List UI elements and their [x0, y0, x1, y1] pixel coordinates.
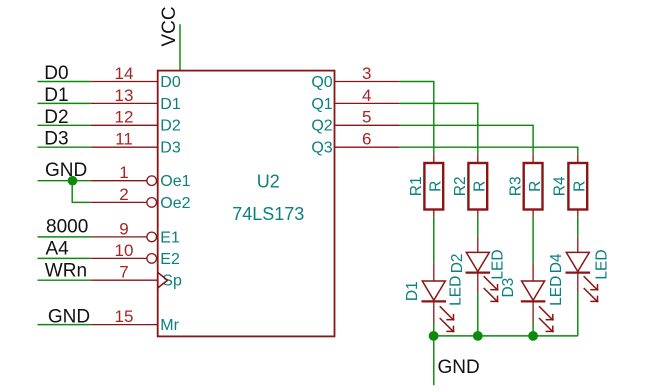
svg-text:D2: D2 — [160, 118, 181, 135]
svg-text:D0: D0 — [160, 74, 181, 91]
svg-text:Q0: Q0 — [311, 74, 332, 91]
svg-text:LED: LED — [490, 249, 507, 279]
svg-text:12: 12 — [115, 108, 134, 127]
svg-text:GND: GND — [48, 306, 90, 327]
svg-text:D4: D4 — [548, 253, 565, 273]
svg-text:R: R — [527, 181, 544, 192]
svg-text:D3: D3 — [160, 140, 181, 157]
svg-text:R2: R2 — [452, 176, 469, 196]
svg-text:1: 1 — [119, 163, 128, 182]
svg-text:D0: D0 — [44, 63, 68, 84]
svg-text:3: 3 — [362, 64, 371, 83]
svg-text:5: 5 — [362, 108, 371, 127]
svg-text:E2: E2 — [160, 251, 180, 268]
svg-text:D2: D2 — [44, 107, 68, 128]
svg-text:Q1: Q1 — [311, 96, 332, 113]
svg-text:Oe2: Oe2 — [160, 195, 190, 212]
svg-text:LED: LED — [448, 276, 465, 306]
svg-text:LED: LED — [593, 249, 610, 279]
svg-text:D1: D1 — [404, 281, 421, 301]
svg-text:14: 14 — [115, 64, 134, 83]
svg-text:Mr: Mr — [160, 317, 179, 334]
svg-text:WRn: WRn — [45, 261, 87, 282]
svg-text:Q3: Q3 — [311, 140, 332, 157]
svg-text:VCC: VCC — [159, 6, 180, 46]
svg-text:R: R — [572, 181, 589, 192]
svg-text:R1: R1 — [408, 176, 425, 196]
svg-text:E1: E1 — [160, 229, 180, 246]
svg-text:R: R — [428, 181, 445, 192]
svg-text:LED: LED — [548, 276, 565, 306]
svg-text:R3: R3 — [507, 176, 524, 196]
svg-text:GND: GND — [438, 357, 480, 378]
svg-text:A4: A4 — [46, 239, 70, 260]
svg-text:D2: D2 — [449, 253, 466, 273]
svg-text:D3: D3 — [500, 278, 517, 298]
svg-text:10: 10 — [115, 241, 134, 260]
svg-text:11: 11 — [115, 130, 133, 149]
svg-text:2: 2 — [119, 185, 128, 204]
svg-text:D1: D1 — [44, 85, 68, 106]
svg-text:8000: 8000 — [46, 217, 88, 238]
svg-text:R4: R4 — [552, 176, 569, 196]
svg-text:R: R — [472, 181, 489, 192]
svg-text:15: 15 — [115, 307, 134, 326]
svg-text:D3: D3 — [44, 129, 68, 150]
svg-text:74LS173: 74LS173 — [232, 204, 304, 224]
svg-text:4: 4 — [362, 86, 371, 105]
svg-text:Q2: Q2 — [311, 118, 332, 135]
svg-text:GND: GND — [45, 160, 87, 181]
svg-text:7: 7 — [119, 263, 128, 282]
svg-text:Oe1: Oe1 — [160, 173, 190, 190]
svg-text:6: 6 — [362, 130, 371, 149]
svg-text:U2: U2 — [257, 172, 280, 192]
svg-text:D1: D1 — [160, 96, 181, 113]
svg-text:13: 13 — [115, 86, 134, 105]
svg-text:9: 9 — [119, 219, 128, 238]
